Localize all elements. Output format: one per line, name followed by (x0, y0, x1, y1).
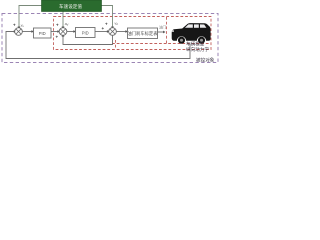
background (0, 0, 220, 66)
green header box (42, 0, 102, 12)
svg-text:油门: 油门 (159, 25, 166, 30)
svg-text:+: + (56, 35, 59, 40)
wire: block 3 to vehicle (158, 31, 164, 33)
vehicle (black SUV) (172, 23, 211, 44)
wire: feedback U between junction 2 bottom and junction 3 bottom (63, 35, 113, 44)
summing junction 2 (59, 28, 67, 36)
svg-text:PID: PID (39, 31, 46, 36)
svg-text:PID: PID (82, 30, 89, 35)
svg-text:vd: vd (115, 22, 119, 27)
wire: junction 2 to PID block 2 (67, 31, 74, 33)
inner dashed box A (red, controller+plant) (54, 17, 212, 50)
wire: junction 1 to PID block 1 (22, 31, 32, 33)
block PID 2 (76, 28, 96, 38)
block throttle/brake map (128, 28, 158, 39)
wire: feedback long bottom line to junction 1 left (6, 32, 190, 59)
svg-text:车速设定值: 车速设定值 (59, 3, 82, 10)
wire: block 1 to junction 2 (51, 31, 58, 33)
block PID 1 (34, 28, 52, 38)
wire: block 2 to junction 3 (95, 31, 108, 33)
svg-text:+: + (105, 22, 108, 27)
svg-text:纵向动力学: 纵向动力学 (186, 46, 209, 53)
wire: green box right to summing junction 3 top (101, 6, 113, 28)
wire: junction 3 to throttle/brake block (116, 31, 126, 33)
svg-text:+: + (13, 23, 16, 28)
summing junction 1 (15, 28, 23, 36)
outer dashed box (purple) (2, 14, 218, 63)
dashed segment (red, below throttle/brake block) (115, 40, 117, 49)
wire: green box bottom to summing junction 2 top (62, 11, 64, 28)
svg-text:被控对象: 被控对象 (196, 57, 215, 64)
summing junction 3 (109, 28, 117, 36)
wire: green box left to summing junction 1 top (19, 6, 42, 28)
inner dashed box B (red, around vehicle) (167, 17, 212, 44)
svg-text:+: + (102, 26, 105, 31)
svg-text:+: + (56, 23, 59, 28)
svg-text:油门刹车标定表: 油门刹车标定表 (127, 30, 158, 37)
svg-text:ad: ad (65, 22, 69, 27)
dashed segment (red, y=43.5 under block 3 joining vehicle box) (112, 43, 167, 45)
